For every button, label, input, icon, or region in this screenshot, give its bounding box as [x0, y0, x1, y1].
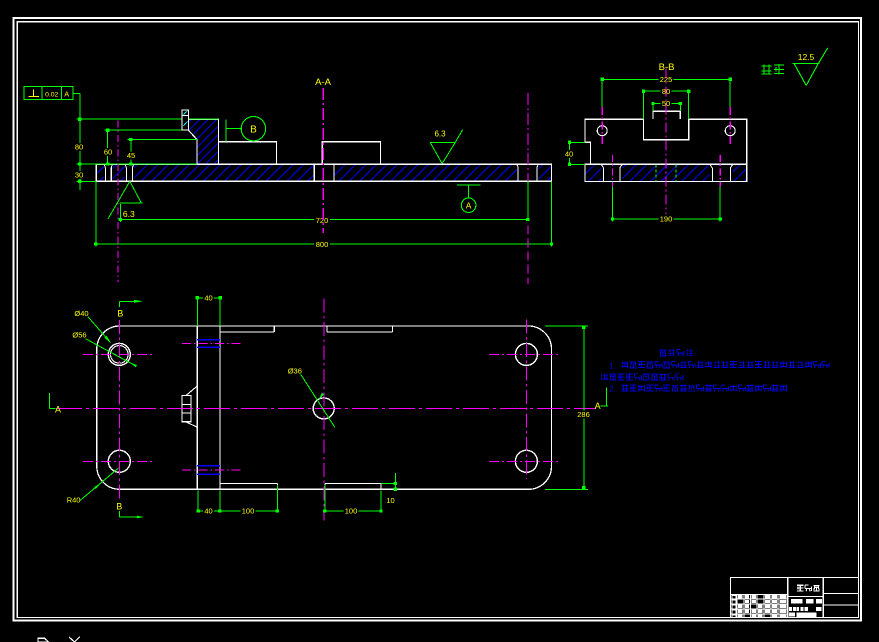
svg-text:12.5: 12.5 [798, 52, 815, 62]
A-A centerline middle [322, 88, 324, 233]
B-B top notch [643, 119, 688, 140]
datum A symbol [457, 184, 481, 186]
A-A pad 2 [322, 142, 380, 164]
section mark B bottom [119, 516, 140, 518]
title block verticals [787, 578, 789, 618]
svg-text:Ø36: Ø36 [288, 367, 302, 376]
dimension 100 plan bottom left [276, 485, 278, 513]
svg-text:Ø56: Ø56 [72, 330, 86, 339]
roughness 6.3 on plate [430, 141, 455, 143]
plan main horizontal centerline A-A cut [56, 407, 596, 409]
dimension 10 [381, 483, 395, 485]
B-B slot centerlines [611, 155, 613, 187]
dimension 60 [107, 130, 109, 164]
svg-text:190: 190 [660, 215, 673, 224]
B-B body outline [585, 119, 747, 164]
tech requirements title [660, 349, 667, 351]
dimension 80 B-B [642, 91, 644, 119]
svg-text:30: 30 [75, 170, 83, 179]
datum target B [225, 120, 227, 142]
title block outer [731, 578, 859, 618]
svg-text:6.3: 6.3 [123, 209, 135, 219]
svg-text:286: 286 [577, 410, 590, 419]
plan bottom step lines [220, 483, 277, 485]
roughness 6.3 bottom surface [108, 181, 130, 219]
plan vertical centerline middle [323, 299, 325, 521]
B-B hole centerlines [601, 107, 603, 145]
dimension 40 B-B [570, 141, 585, 143]
remainder roughness note [762, 65, 772, 67]
A-A plate counterbore slots [104, 167, 106, 181]
svg-text:100: 100 [242, 507, 255, 516]
svg-text:60: 60 [104, 148, 112, 157]
plan vertical centerline left [118, 320, 120, 502]
A-A base plate hatched section [96, 164, 551, 181]
svg-text:A: A [64, 92, 69, 99]
svg-text:Ø40: Ø40 [74, 309, 88, 318]
svg-text:A: A [595, 401, 601, 411]
section mark A left [48, 393, 50, 408]
dimension 286 [545, 325, 588, 327]
plan rib left line [196, 326, 198, 489]
title block horizontals [731, 593, 788, 595]
A-A clamp block hatched [188, 119, 218, 164]
svg-text:A-A: A-A [315, 77, 332, 88]
svg-text:40: 40 [204, 294, 212, 303]
title block part name [797, 584, 804, 586]
svg-text:B: B [116, 502, 122, 512]
svg-text:40: 40 [204, 507, 212, 516]
tolerance leader [73, 93, 80, 95]
svg-text:80: 80 [75, 143, 83, 152]
svg-text:0.02: 0.02 [45, 91, 58, 98]
dimension 800 [96, 243, 552, 245]
B-B plate hatched [585, 164, 747, 181]
A-A stud pin [182, 110, 188, 130]
svg-text:A: A [466, 201, 472, 211]
dimension 190 [611, 182, 613, 222]
plan corner hole bottom-left [108, 450, 130, 472]
A-A pad 1 [218, 142, 276, 165]
svg-text:100: 100 [345, 507, 358, 516]
plan hidden lines bottom [197, 465, 220, 467]
dimension 45 [130, 140, 132, 164]
title block left grid [736, 594, 738, 617]
B-B hidden hole lines [655, 164, 657, 181]
svg-text:6.3: 6.3 [434, 129, 446, 138]
corner glyph V [69, 637, 75, 642]
dimension 225 [601, 79, 603, 110]
svg-text:2.: 2. [609, 385, 616, 394]
plan vertical centerline right [525, 320, 527, 479]
svg-text:R40: R40 [67, 496, 81, 505]
svg-text:1.: 1. [609, 361, 616, 370]
plan corner hole top-right [515, 343, 537, 365]
title block mid fills [791, 599, 802, 604]
title block cell fills [738, 595, 743, 598]
dimension 80 [79, 119, 81, 190]
A-A centerline right [527, 93, 529, 181]
dimension 50 [652, 103, 654, 111]
plan top step lines [220, 331, 274, 333]
svg-text:40: 40 [565, 150, 573, 159]
svg-text:B: B [117, 309, 123, 319]
svg-text:10: 10 [386, 496, 394, 505]
plan outline rounded [97, 326, 552, 489]
plate top datum line green [77, 163, 198, 165]
plan corner hole bottom-right [515, 450, 537, 472]
dimension 40 plan top [196, 299, 198, 326]
plan clamp bracket [186, 386, 197, 396]
B-B centerline middle [665, 69, 667, 215]
corner glyph triangle [38, 638, 49, 642]
dimension 720 [95, 182, 97, 247]
plan center hole [313, 398, 334, 419]
section mark A right [601, 405, 608, 407]
perpendicularity tolerance frame [24, 87, 73, 100]
dimension 40 plan bottom [197, 491, 199, 513]
tech requirements line 2 [601, 374, 608, 376]
plan feature centerlines short [182, 343, 241, 345]
B-B hole left [597, 126, 607, 136]
svg-text:720: 720 [316, 216, 329, 225]
svg-text:45: 45 [127, 151, 135, 160]
B-B hole right [725, 126, 735, 136]
dimension 100 plan bottom right [324, 485, 326, 513]
section mark B top [119, 300, 140, 302]
plan hidden lines top [197, 339, 220, 341]
svg-text:800: 800 [316, 240, 329, 249]
A-A centerline left [117, 121, 119, 283]
B-B plate slots [603, 168, 605, 182]
dimension 30 [74, 171, 85, 179]
plan corner hole top-left [108, 343, 130, 365]
svg-text:B: B [250, 125, 257, 136]
plan rib right line [219, 326, 221, 489]
B-B boss [653, 111, 680, 119]
plan hole horizontal centerlines [83, 353, 152, 355]
A-A extension lines [77, 118, 219, 120]
svg-text:A: A [55, 405, 61, 415]
